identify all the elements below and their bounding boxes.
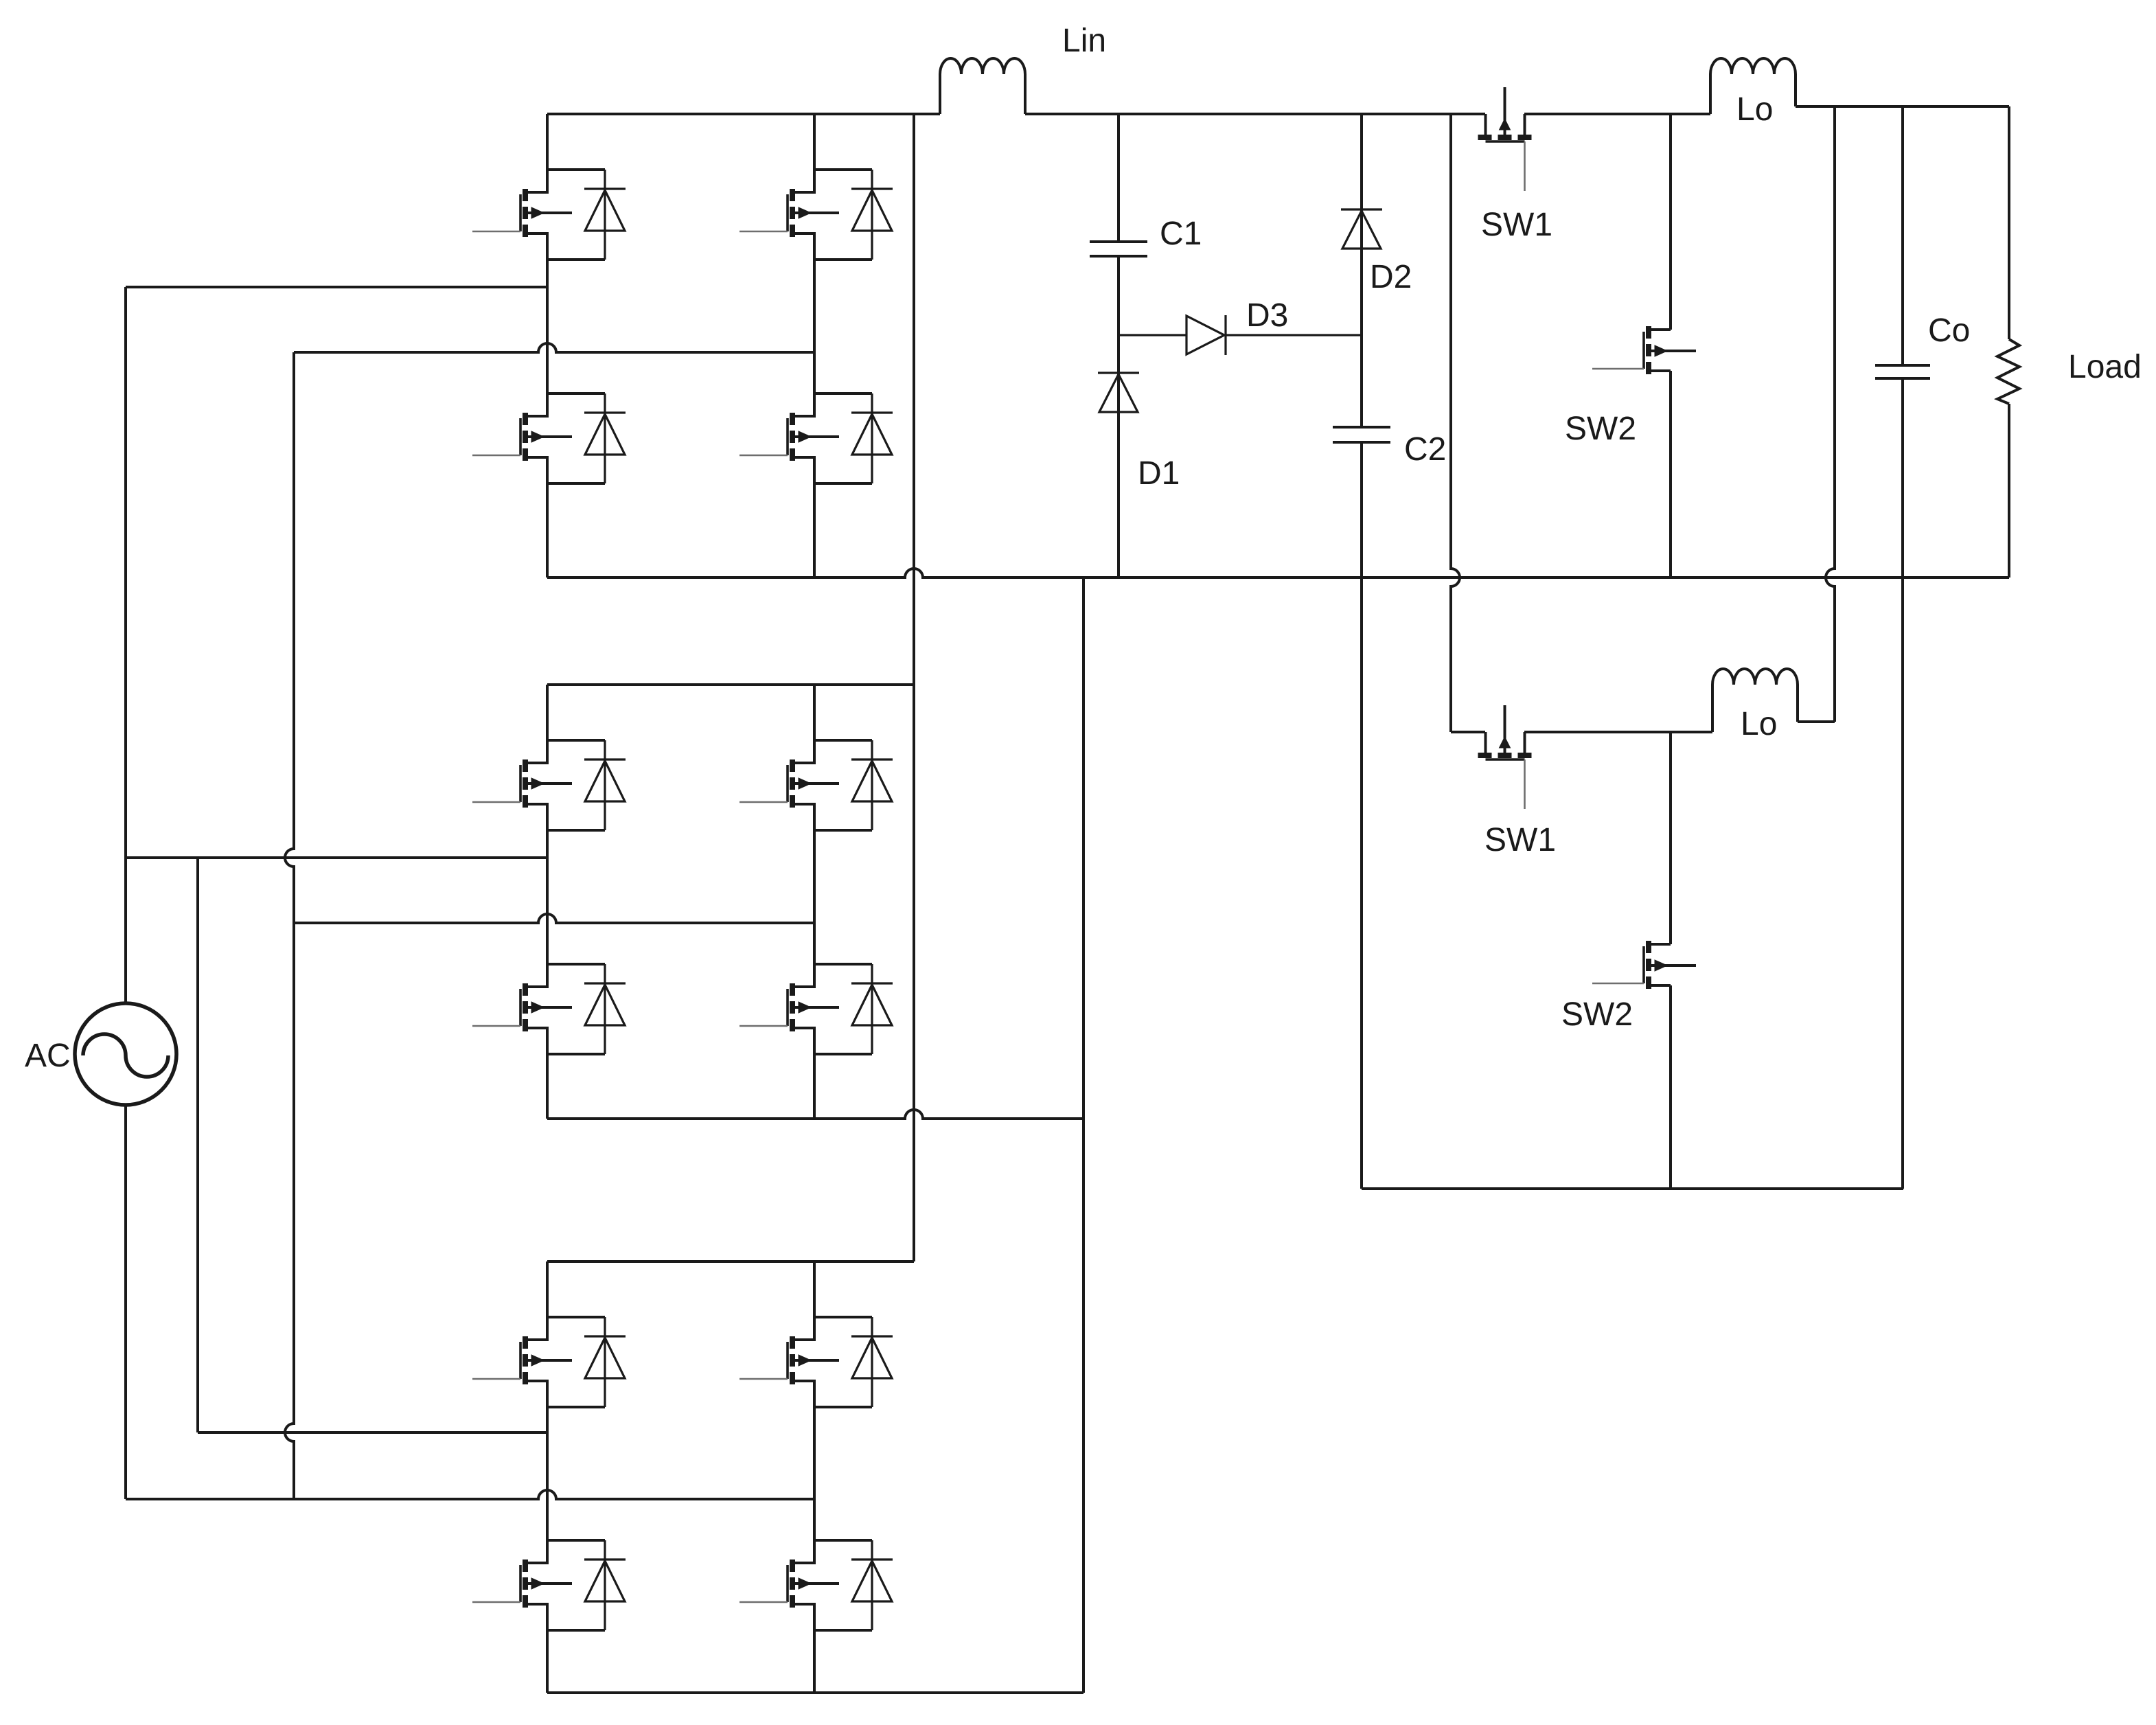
wire: node B vertical to lower Lo (hop at return rail): [1826, 106, 1835, 722]
wire: bottom bridge left mid wire: [198, 1431, 547, 1434]
transistor Q12 (bottom bridge lower-right) channel: [790, 1560, 795, 1572]
transistor Q8 (middle bridge lower-right) drain bar: [814, 963, 872, 966]
transistor Q7 (middle bridge upper-right) source bar: [814, 829, 872, 832]
transistor Q2 (top bridge lower-left) gate lead: [472, 455, 520, 457]
SW2-bot source lead: [1649, 984, 1671, 987]
transistor Q10 (bottom bridge lower-left) source bar: [547, 1629, 605, 1632]
transistor Q11 (bottom bridge upper-right) body diode: [871, 1317, 873, 1407]
AC source: [75, 1003, 176, 1105]
SW2-top gate: [1642, 332, 1645, 369]
wire: load branch upper: [2008, 106, 2010, 339]
transistor Q9 (bottom bridge upper-left) gate: [519, 1342, 522, 1379]
wire: D2-C2 branch upper: [1360, 114, 1363, 427]
transistor Q1 (top bridge upper-left) source bar: [547, 258, 605, 261]
transistor Q11 (bottom bridge upper-right) channel: [790, 1336, 795, 1349]
svg-text:SW2: SW2: [1565, 411, 1636, 447]
wire: middle bridge left leg segments: [546, 685, 549, 740]
transistor Q9 (bottom bridge upper-left) source lead: [525, 1381, 547, 1407]
wire: top bridge left mid wire: [126, 286, 547, 288]
wire: top rail Lin to SW1: [1025, 113, 1485, 115]
transistor Q10 (bottom bridge lower-left) channel: [523, 1560, 528, 1572]
transistor Q10 (bottom bridge lower-left) body diode: [604, 1540, 606, 1630]
transistor Q5 (middle bridge upper-left) source lead: [525, 804, 547, 830]
wire: top rail left of Lin: [547, 113, 940, 115]
wire: converter-2 input to SW1: [1451, 731, 1485, 733]
wire: Lo lower output to node B vertical: [1798, 720, 1835, 723]
svg-text:Lin: Lin: [1062, 23, 1106, 59]
SW1-bot source contact: [1524, 732, 1526, 755]
transistor Q9 (bottom bridge upper-left) gate lead: [472, 1378, 520, 1380]
transistor Q2 (top bridge lower-left) body arrow: [525, 435, 572, 438]
transistor Q6 (middle bridge lower-left) gate lead: [472, 1025, 520, 1027]
diode D3: [1119, 334, 1186, 336]
transistor Q7 (middle bridge upper-right) drain bar: [814, 739, 872, 742]
transistor Q2 (top bridge lower-left) channel: [523, 413, 528, 425]
transistor Q8 (middle bridge lower-right) gate: [786, 989, 789, 1026]
transistor Q11 (bottom bridge upper-right) drain bar: [814, 1316, 872, 1318]
transistor Q11 (bottom bridge upper-right) gate lead: [739, 1378, 788, 1380]
transistor Q7 (middle bridge upper-right) source lead: [792, 804, 814, 830]
SW2-bot gate lead: [1592, 983, 1644, 985]
transistor Q12 (bottom bridge lower-right) source bar: [814, 1629, 872, 1632]
wire: bridge tops vertical: [913, 114, 915, 1261]
transistor Q9 (bottom bridge upper-left) source bar: [547, 1406, 605, 1408]
transistor Q3 (top bridge upper-right) channel: [790, 189, 795, 201]
transistor Q5 (middle bridge upper-left) body diode: [604, 740, 606, 830]
SW2-top channel: [1646, 326, 1651, 339]
transistor Q2 (top bridge lower-left) source bar: [547, 482, 605, 485]
transistor Q10 (bottom bridge lower-left) gate lead: [472, 1601, 520, 1603]
transistor Q5 (middle bridge upper-left) drain lead: [525, 740, 547, 763]
SW2-bot gate: [1642, 946, 1645, 983]
transistor Q10 (bottom bridge lower-left) drain bar: [547, 1539, 605, 1542]
svg-text:SW1: SW1: [1481, 207, 1552, 243]
svg-text:Load: Load: [2068, 349, 2142, 385]
transistor Q11 (bottom bridge upper-right) body arrow: [792, 1359, 839, 1362]
transistor Q10 (bottom bridge lower-left) gate: [519, 1565, 522, 1602]
transistor Q5 (middle bridge upper-left) body arrow: [525, 782, 572, 785]
transistor Q8 (middle bridge lower-right) body diode: [871, 964, 873, 1054]
transistor Q4 (top bridge lower-right) source lead: [792, 457, 814, 483]
transistor Q3 (top bridge upper-right) body arrow: [792, 212, 839, 214]
transistor Q1 (top bridge upper-left) source lead: [525, 233, 547, 260]
transistor Q3 (top bridge upper-right) source bar: [814, 258, 872, 261]
transistor Q3 (top bridge upper-right) gate: [786, 194, 789, 231]
transistor Q3 (top bridge upper-right) source lead: [792, 233, 814, 260]
wire: right-mid branch vertical (hops): [285, 352, 294, 1499]
wire: middle bridge right leg segments: [813, 685, 816, 740]
transistor Q4 (top bridge lower-right) channel: [790, 413, 795, 425]
transistor Q9 (bottom bridge upper-left) body diode: [604, 1317, 606, 1407]
transistor Q11 (bottom bridge upper-right) drain lead: [792, 1317, 814, 1340]
resistor Load: [1997, 339, 2019, 404]
wire: converter-2 input vertical (hop at return rail): [1451, 114, 1460, 732]
wire: bottom bridge right leg segments: [813, 1261, 816, 1317]
wire: top bridge right leg segments: [813, 114, 816, 170]
transistor Q2 (top bridge lower-left) source lead: [525, 457, 547, 483]
transistor Q3 (top bridge upper-right) gate lead: [739, 231, 788, 233]
wire: return rail (hop at bridge-tops vertical): [547, 569, 2009, 578]
wire: left-mid branch vertical: [196, 858, 199, 1432]
wire: converter-2 bottom rail: [1362, 1187, 1903, 1190]
transistor Q6 (middle bridge lower-left) channel: [523, 983, 528, 996]
wire: node B output rail: [1796, 105, 2009, 108]
Lo-top coil: [1710, 58, 1796, 114]
transistor Q5 (middle bridge upper-left) gate: [519, 765, 522, 802]
wire: C1-D1 branch upper: [1117, 114, 1120, 242]
svg-text:SW2: SW2: [1561, 996, 1633, 1033]
svg-text:Lo: Lo: [1736, 91, 1773, 128]
transistor Q1 (top bridge upper-left) channel: [523, 189, 528, 201]
transistor Q11 (bottom bridge upper-right) source bar: [814, 1406, 872, 1408]
transistor Q1 (top bridge upper-left) gate lead: [472, 231, 520, 233]
wire: SW1 to node A to Lo: [1524, 113, 1710, 115]
wire: middle bridge bottom rail (hop): [547, 1110, 1083, 1119]
SW1-bot gate: [1486, 758, 1525, 761]
wire: bottom bridge right mid wire (AC neutral, hop over left leg): [126, 1490, 814, 1499]
wire: SW2 branch (top converter): [1669, 114, 1672, 330]
wire: load branch lower: [2008, 404, 2010, 578]
wire: middle bridge right mid wire (hop over left leg): [294, 914, 814, 923]
wire: C1 to D3 node to rail: [1117, 256, 1120, 578]
Lo-bot coil: [1712, 669, 1798, 732]
transistor Q7 (middle bridge upper-right) body arrow: [792, 782, 839, 785]
SW1-top drain contact: [1484, 114, 1487, 137]
SW1-bot channel: [1478, 753, 1492, 758]
transistor Q6 (middle bridge lower-left) gate: [519, 989, 522, 1026]
transistor Q8 (middle bridge lower-right) gate lead: [739, 1025, 788, 1027]
transistor Q6 (middle bridge lower-left) body diode: [604, 964, 606, 1054]
SW2-top drain lead: [1649, 328, 1671, 331]
transistor Q8 (middle bridge lower-right) channel: [790, 983, 795, 996]
transistor Q7 (middle bridge upper-right) gate: [786, 765, 789, 802]
transistor Q6 (middle bridge lower-left) source bar: [547, 1053, 605, 1055]
svg-text:C2: C2: [1404, 431, 1446, 468]
transistor Q1 (top bridge upper-left) drain bar: [547, 168, 605, 171]
transistor Q2 (top bridge lower-left) drain bar: [547, 392, 605, 395]
wire: top bridge right mid wire (hop over left leg): [294, 343, 814, 352]
transistor Q2 (top bridge lower-left) drain lead: [525, 393, 547, 416]
transistor Q6 (middle bridge lower-left) body arrow: [525, 1006, 572, 1009]
wire: bottom bridge bottom rail: [547, 1691, 1083, 1694]
SW2-bot channel: [1646, 941, 1651, 953]
SW2-top body arrow: [1649, 350, 1696, 352]
wire: C2 to lower rail: [1360, 442, 1363, 1189]
wire: SW2 branch (lower converter): [1669, 732, 1672, 944]
transistor Q10 (bottom bridge lower-left) body arrow: [525, 1582, 572, 1585]
transistor Q4 (top bridge lower-right) body arrow: [792, 435, 839, 438]
SW2-bot drain lead: [1649, 943, 1671, 946]
transistor Q1 (top bridge upper-left) drain lead: [525, 170, 547, 192]
transistor Q5 (middle bridge upper-left) drain bar: [547, 739, 605, 742]
transistor Q12 (bottom bridge lower-right) drain lead: [792, 1540, 814, 1563]
transistor Q12 (bottom bridge lower-right) body arrow: [792, 1582, 839, 1585]
wire: AC neutral vertical: [124, 1105, 127, 1499]
transistor Q6 (middle bridge lower-left) source lead: [525, 1028, 547, 1054]
SW1-top source contact: [1524, 114, 1526, 137]
transistor Q12 (bottom bridge lower-right) gate: [786, 1565, 789, 1602]
transistor Q7 (middle bridge upper-right) body diode: [871, 740, 873, 830]
transistor Q7 (middle bridge upper-right) channel: [790, 759, 795, 772]
svg-text:C1: C1: [1160, 216, 1202, 252]
transistor Q11 (bottom bridge upper-right) source lead: [792, 1381, 814, 1407]
transistor Q4 (top bridge lower-right) drain lead: [792, 393, 814, 416]
transistor Q9 (bottom bridge upper-left) drain bar: [547, 1316, 605, 1318]
SW1-top gate: [1486, 140, 1525, 143]
transistor Q1 (top bridge upper-left) gate: [519, 194, 522, 231]
transistor Q12 (bottom bridge lower-right) gate lead: [739, 1601, 788, 1603]
transistor Q3 (top bridge upper-right) drain bar: [814, 168, 872, 171]
diode D2: [1341, 208, 1382, 210]
transistor Q10 (bottom bridge lower-left) source lead: [525, 1604, 547, 1630]
wire: bottom bridge top rail: [547, 1260, 914, 1263]
SW1-bot drain contact: [1484, 732, 1487, 755]
wire: AC phase vertical: [124, 287, 127, 1003]
Lin coil: [940, 58, 1025, 114]
SW1-bot gate lead: [1524, 759, 1526, 809]
transistor Q6 (middle bridge lower-left) drain lead: [525, 964, 547, 987]
SW1-top body arrow: [1504, 87, 1506, 137]
svg-text:AC: AC: [25, 1038, 71, 1074]
svg-text:SW1: SW1: [1484, 822, 1556, 858]
svg-text:D1: D1: [1138, 455, 1180, 492]
svg-text:D3: D3: [1246, 297, 1288, 334]
Co plates: [1875, 364, 1930, 367]
transistor Q12 (bottom bridge lower-right) drain bar: [814, 1539, 872, 1542]
transistor Q5 (middle bridge upper-left) source bar: [547, 829, 605, 832]
transistor Q7 (middle bridge upper-right) drain lead: [792, 740, 814, 763]
wire: top bridge left leg segments: [546, 114, 549, 170]
transistor Q9 (bottom bridge upper-left) body arrow: [525, 1359, 572, 1362]
transistor Q3 (top bridge upper-right) body diode: [871, 170, 873, 260]
wire: SW1 to node A2 to Lo: [1524, 731, 1712, 733]
transistor Q6 (middle bridge lower-left) drain bar: [547, 963, 605, 966]
wire: Co branch: [1901, 106, 1904, 365]
transistor Q4 (top bridge lower-right) body diode: [871, 393, 873, 483]
transistor Q12 (bottom bridge lower-right) body diode: [871, 1540, 873, 1630]
transistor Q2 (top bridge lower-left) body diode: [604, 393, 606, 483]
transistor Q11 (bottom bridge upper-right) gate: [786, 1342, 789, 1379]
svg-text:Lo: Lo: [1741, 706, 1777, 742]
svg-text:D2: D2: [1370, 259, 1412, 295]
SW2-bot body arrow: [1649, 964, 1696, 967]
transistor Q12 (bottom bridge lower-right) source lead: [792, 1604, 814, 1630]
transistor Q8 (middle bridge lower-right) source bar: [814, 1053, 872, 1055]
transistor Q1 (top bridge upper-left) body arrow: [525, 212, 572, 214]
transistor Q8 (middle bridge lower-right) drain lead: [792, 964, 814, 987]
transistor Q2 (top bridge lower-left) gate: [519, 418, 522, 455]
svg-text:Co: Co: [1928, 312, 1970, 349]
transistor Q4 (top bridge lower-right) source bar: [814, 482, 872, 485]
wire: middle bridge top rail: [547, 683, 914, 686]
C2 plates: [1333, 426, 1390, 429]
wire: bridge bottoms vertical: [1082, 578, 1085, 1693]
SW2-top gate lead: [1592, 368, 1644, 370]
transistor Q5 (middle bridge upper-left) gate lead: [472, 801, 520, 803]
transistor Q9 (bottom bridge upper-left) drain lead: [525, 1317, 547, 1340]
SW1-top gate lead: [1524, 141, 1526, 191]
transistor Q1 (top bridge upper-left) body diode: [604, 170, 606, 260]
transistor Q4 (top bridge lower-right) gate lead: [739, 455, 788, 457]
diode D1: [1098, 372, 1139, 374]
transistor Q8 (middle bridge lower-right) body arrow: [792, 1006, 839, 1009]
transistor Q9 (bottom bridge upper-left) channel: [523, 1336, 528, 1349]
SW2-top source lead: [1649, 369, 1671, 372]
SW1-top channel: [1478, 135, 1492, 140]
transistor Q7 (middle bridge upper-right) gate lead: [739, 801, 788, 803]
C1 plates: [1090, 240, 1147, 243]
transistor Q8 (middle bridge lower-right) source lead: [792, 1028, 814, 1054]
wire: middle bridge left mid wire: [126, 856, 547, 859]
wire: bottom bridge left leg segments: [546, 1261, 549, 1317]
transistor Q4 (top bridge lower-right) drain bar: [814, 392, 872, 395]
transistor Q10 (bottom bridge lower-left) drain lead: [525, 1540, 547, 1563]
transistor Q3 (top bridge upper-right) drain lead: [792, 170, 814, 192]
SW1-bot body arrow: [1504, 705, 1506, 755]
transistor Q5 (middle bridge upper-left) channel: [523, 759, 528, 772]
transistor Q4 (top bridge lower-right) gate: [786, 418, 789, 455]
